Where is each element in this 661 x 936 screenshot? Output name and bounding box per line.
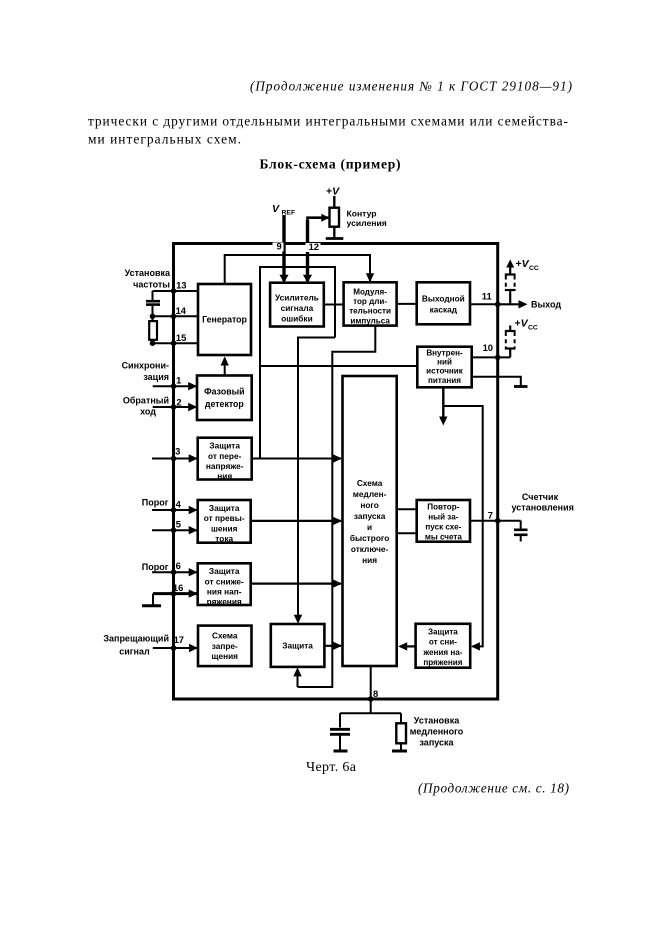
svg-text:ход: ход <box>140 407 156 417</box>
svg-text:запуска: запуска <box>419 738 454 748</box>
svg-text:Модуля-: Модуля- <box>353 287 387 296</box>
svg-text:Запрещающий: Запрещающий <box>103 634 169 644</box>
svg-text:Черт. 6а: Черт. 6а <box>306 760 357 775</box>
svg-text:Порог: Порог <box>142 498 169 508</box>
svg-text:5: 5 <box>176 519 181 530</box>
svg-text:Счетчик: Счетчик <box>522 492 559 502</box>
svg-text:(Продолжение см. с. 18): (Продолжение см. с. 18) <box>418 781 569 796</box>
svg-text:пуск схе-: пуск схе- <box>425 523 461 532</box>
svg-text:Защита: Защита <box>282 640 313 650</box>
svg-text:V: V <box>272 203 280 215</box>
svg-text:сигнал: сигнал <box>119 647 150 657</box>
svg-text:ного: ного <box>360 500 379 510</box>
svg-text:7: 7 <box>488 510 493 521</box>
svg-text:Синхрони-: Синхрони- <box>122 361 169 371</box>
svg-text:Схема: Схема <box>357 478 383 488</box>
svg-text:сигнала: сигнала <box>281 303 314 313</box>
svg-text:Защита: Защита <box>209 441 240 451</box>
svg-text:6: 6 <box>176 560 181 571</box>
svg-text:14: 14 <box>176 305 187 316</box>
svg-text:Обратный: Обратный <box>123 396 169 406</box>
svg-text:15: 15 <box>176 332 186 343</box>
svg-text:быстрого: быстрого <box>350 533 389 543</box>
svg-text:Фазовый: Фазовый <box>204 387 244 397</box>
svg-text:Контур: Контур <box>347 209 377 219</box>
svg-text:тока: тока <box>215 533 233 543</box>
svg-text:ний: ний <box>437 358 452 367</box>
svg-text:Защита: Защита <box>209 566 240 576</box>
svg-text:Блок-схема (пример): Блок-схема (пример) <box>260 157 401 173</box>
svg-text:отключе-: отключе- <box>351 544 389 554</box>
svg-text:+V: +V <box>516 258 530 270</box>
svg-text:установления: установления <box>512 503 574 513</box>
svg-text:тельности: тельности <box>349 307 391 316</box>
svg-text:Защита: Защита <box>428 627 458 636</box>
svg-text:11: 11 <box>482 291 492 302</box>
svg-text:+V: +V <box>515 318 529 330</box>
svg-text:Усилитель: Усилитель <box>275 292 319 302</box>
svg-text:жения на-: жения на- <box>422 648 462 657</box>
svg-text:2: 2 <box>176 397 181 408</box>
svg-text:запуска: запуска <box>354 511 386 521</box>
svg-text:Установка: Установка <box>414 716 460 726</box>
svg-text:ми интегральных схем.: ми интегральных схем. <box>88 132 241 147</box>
svg-text:трически с другими отдельными: трически с другими отдельными интегральн… <box>88 114 568 129</box>
svg-text:детектор: детектор <box>205 399 245 409</box>
svg-text:Выход: Выход <box>531 300 561 310</box>
svg-text:CC: CC <box>528 325 538 332</box>
svg-text:Схема: Схема <box>212 630 238 640</box>
svg-text:и: и <box>367 522 372 532</box>
svg-text:REF: REF <box>282 210 296 217</box>
svg-text:медленного: медленного <box>410 727 464 737</box>
svg-text:источник: источник <box>426 367 464 376</box>
svg-text:Внутрен-: Внутрен- <box>426 348 463 357</box>
svg-text:12: 12 <box>309 241 319 252</box>
svg-text:запре-: запре- <box>212 641 238 651</box>
svg-text:ошибки: ошибки <box>281 314 312 324</box>
svg-text:каскад: каскад <box>430 304 458 314</box>
svg-text:CC: CC <box>529 265 539 272</box>
svg-text:10: 10 <box>483 342 493 353</box>
svg-text:16: 16 <box>173 582 183 593</box>
svg-text:+V: +V <box>326 186 340 198</box>
svg-text:4: 4 <box>176 499 182 510</box>
svg-text:от сни-: от сни- <box>429 638 457 647</box>
svg-text:8: 8 <box>373 688 378 699</box>
svg-text:шения: шения <box>211 523 238 533</box>
svg-text:от пере-: от пере- <box>208 451 242 461</box>
svg-text:зация: зация <box>143 372 169 382</box>
svg-text:щения: щения <box>211 651 238 661</box>
svg-text:1: 1 <box>176 375 181 386</box>
svg-text:Повтор-: Повтор- <box>427 502 459 511</box>
svg-text:ный за-: ный за- <box>428 512 458 521</box>
svg-text:ния нап-: ния нап- <box>207 586 242 596</box>
svg-text:Выходной: Выходной <box>422 293 465 303</box>
svg-text:Защита: Защита <box>209 503 240 513</box>
svg-text:частоты: частоты <box>133 280 170 290</box>
svg-text:9: 9 <box>276 241 281 252</box>
svg-text:Установка: Установка <box>125 268 171 278</box>
svg-text:мы счета: мы счета <box>425 533 462 542</box>
svg-text:(Продолжение изменения № 1 к Г: (Продолжение изменения № 1 к ГОСТ 29108—… <box>250 79 572 94</box>
svg-text:ния: ния <box>362 555 377 565</box>
svg-text:ния: ния <box>217 471 232 481</box>
svg-text:Порог: Порог <box>142 562 169 572</box>
svg-text:ряжения: ряжения <box>207 597 242 607</box>
svg-text:13: 13 <box>176 279 186 290</box>
svg-text:3: 3 <box>175 446 180 457</box>
svg-text:Генератор: Генератор <box>202 315 247 325</box>
svg-text:питания: питания <box>428 376 461 385</box>
svg-text:усиления: усиления <box>347 218 387 228</box>
svg-text:от превы-: от превы- <box>204 513 245 523</box>
svg-text:медлен-: медлен- <box>353 489 387 499</box>
svg-text:импульса: импульса <box>350 316 390 325</box>
svg-text:от сниже-: от сниже- <box>205 576 244 586</box>
svg-text:тор дли-: тор дли- <box>353 297 387 306</box>
svg-text:17: 17 <box>174 634 184 645</box>
svg-text:напряже-: напряже- <box>206 461 244 471</box>
svg-text:пряжения: пряжения <box>423 658 462 667</box>
